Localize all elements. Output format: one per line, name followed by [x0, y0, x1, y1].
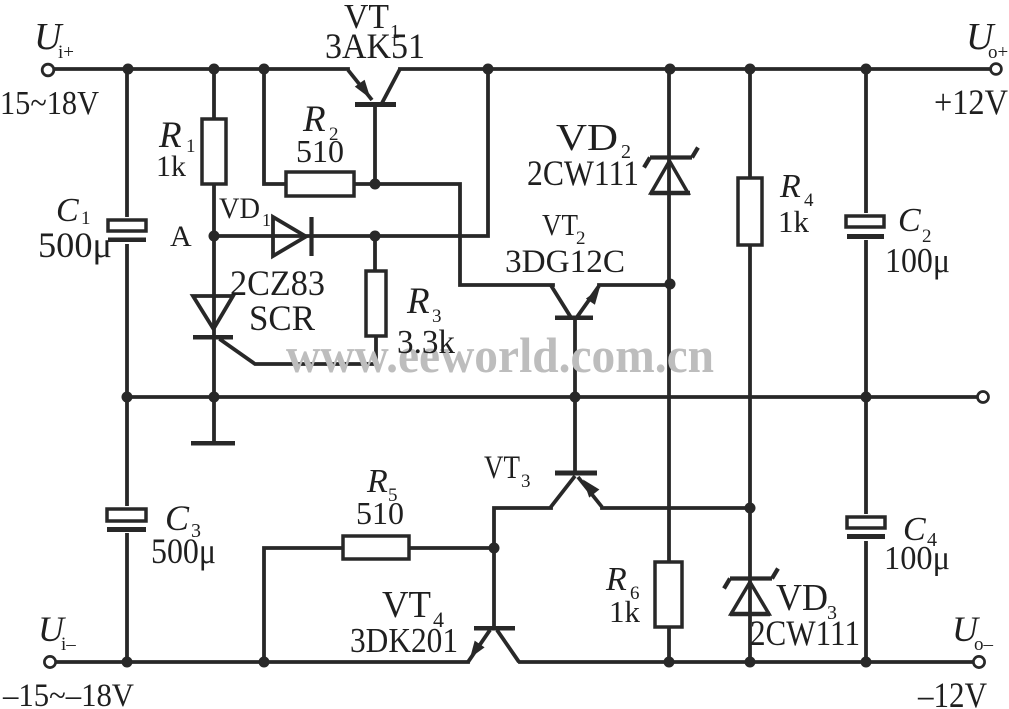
wire VT1 base lead [373, 107, 377, 184]
resistor R5 [343, 536, 409, 559]
thyristor SCR [193, 296, 233, 340]
svg-text:3.3k: 3.3k [397, 324, 455, 361]
svg-text:R: R [605, 561, 627, 598]
svg-text:500μ: 500μ [151, 531, 216, 571]
wire R5 row [264, 548, 494, 662]
resistor R1 [202, 119, 226, 184]
node dot R5 VT4 base [489, 543, 500, 554]
node dot top rail R4 [745, 64, 756, 75]
node dot top rail VD2 [665, 64, 676, 75]
resistor R2 [286, 172, 354, 196]
terminal Uo- [973, 656, 984, 667]
node dot bottom rail R5 [259, 657, 270, 668]
node dot VT1 base R2 [370, 179, 381, 190]
svg-text:1k: 1k [778, 204, 810, 239]
wire VT2 emitter to VD2 [599, 283, 669, 287]
transistor VT2 [551, 286, 600, 321]
node dot top rail C1 [123, 64, 134, 75]
svg-text:o–: o– [974, 634, 994, 655]
wire bottom rail right segment [520, 660, 974, 664]
svg-text:100μ: 100μ [885, 241, 950, 280]
capacitor C4 [843, 514, 891, 541]
svg-text:1k: 1k [156, 150, 186, 183]
wire VT4 base lead [492, 548, 496, 626]
svg-text:i–: i– [61, 634, 76, 655]
capacitor C3 [103, 506, 151, 533]
svg-text:2CW111: 2CW111 [750, 613, 860, 653]
svg-text:R: R [406, 281, 430, 322]
svg-text:C: C [56, 192, 79, 229]
wire bottom rail left segment [57, 660, 468, 664]
svg-text:510: 510 [296, 133, 344, 169]
node dot VD1 R3 [370, 231, 381, 242]
node A dot [209, 231, 220, 242]
svg-text:3DK201: 3DK201 [350, 621, 458, 660]
wire node A to VD1 to top rail [214, 70, 488, 236]
wire R3 bottom to SCR gate [221, 336, 376, 364]
svg-text:VT: VT [542, 207, 578, 242]
wire top rail left segment [55, 67, 348, 71]
node dot bottom rail C3 [122, 657, 133, 668]
node dot mid rail C1 [122, 392, 133, 403]
svg-text:www.eeworld.com.cn: www.eeworld.com.cn [286, 327, 714, 383]
node dot top rail R2 [259, 64, 270, 75]
wire C1-C3 column [125, 69, 129, 662]
node dot VT2 emitter VD2 [665, 279, 676, 290]
svg-text:A: A [170, 220, 192, 253]
node dot bottom rail R6 [664, 657, 675, 668]
svg-text:i+: i+ [58, 42, 74, 63]
capacitor C1 [104, 217, 150, 244]
svg-text:VD: VD [219, 192, 260, 225]
ground bar [191, 441, 235, 446]
wire R2 branch [264, 69, 286, 184]
node dot mid rail SCR [209, 392, 220, 403]
transistor VT3 [550, 471, 602, 509]
diode VD1 [273, 217, 312, 256]
svg-text:1: 1 [186, 136, 196, 157]
svg-text:–15~–18V: –15~–18V [2, 678, 134, 709]
wire middle rail [127, 395, 977, 399]
svg-text:o+: o+ [988, 42, 1008, 63]
resistor R4 [738, 178, 762, 245]
node dot bottom rail VD3 [745, 657, 756, 668]
terminal mid rail right [978, 392, 989, 403]
wire C2-C4 column [864, 69, 868, 662]
transistor VT1 [348, 69, 400, 107]
wire R1-SCR column [212, 69, 216, 441]
wire VT3 emitter to R4 column [602, 506, 750, 510]
svg-text:510: 510 [356, 495, 404, 531]
resistor R3 [366, 271, 386, 336]
node dot mid rail C2 [861, 392, 872, 403]
svg-text:500μ: 500μ [38, 225, 112, 265]
zener diode VD3 [724, 569, 778, 615]
node dot bottom rail C4 [861, 657, 872, 668]
svg-text:1: 1 [262, 210, 271, 230]
svg-text:15~18V: 15~18V [0, 85, 99, 122]
svg-text:VT: VT [484, 450, 520, 486]
svg-text:C: C [898, 202, 921, 239]
wire VD2 R6 column [667, 69, 671, 662]
transistor VT4 [468, 626, 519, 662]
wire top rail right segment [400, 67, 991, 71]
svg-text:3DG12C: 3DG12C [505, 244, 625, 280]
svg-text:+12V: +12V [934, 82, 1008, 122]
svg-text:2CW111: 2CW111 [527, 153, 639, 193]
wire VT1 base to VT2 collector [354, 184, 553, 285]
wire R4 VD3 column [748, 69, 752, 662]
node dot mid rail VT2 base [570, 392, 581, 403]
resistor R6 [655, 562, 682, 627]
svg-text:VT: VT [382, 584, 431, 626]
svg-text:3: 3 [521, 471, 531, 492]
svg-text:R: R [779, 168, 801, 205]
terminal Uo+ [991, 64, 1002, 75]
svg-text:100μ: 100μ [884, 540, 950, 577]
terminal Ui+ [42, 64, 54, 76]
wire VT2 base / VT3 base column [573, 320, 577, 469]
svg-text:–12V: –12V [917, 675, 987, 709]
node dot top rail VD1 riser [483, 64, 494, 75]
zener diode VD2 [644, 148, 698, 194]
node dot VT3 emitter R4 [745, 503, 756, 514]
terminal Ui- [44, 656, 55, 667]
capacitor C2 [842, 213, 890, 240]
wire VT3 collector down [494, 508, 551, 548]
node dot top rail R1 [209, 64, 220, 75]
svg-text:SCR: SCR [249, 298, 315, 338]
svg-text:2CZ83: 2CZ83 [230, 263, 325, 303]
svg-text:3AK51: 3AK51 [325, 26, 425, 66]
node dot top rail C2 [861, 64, 872, 75]
svg-text:1k: 1k [609, 594, 641, 629]
wire R3 top lead [373, 236, 377, 271]
